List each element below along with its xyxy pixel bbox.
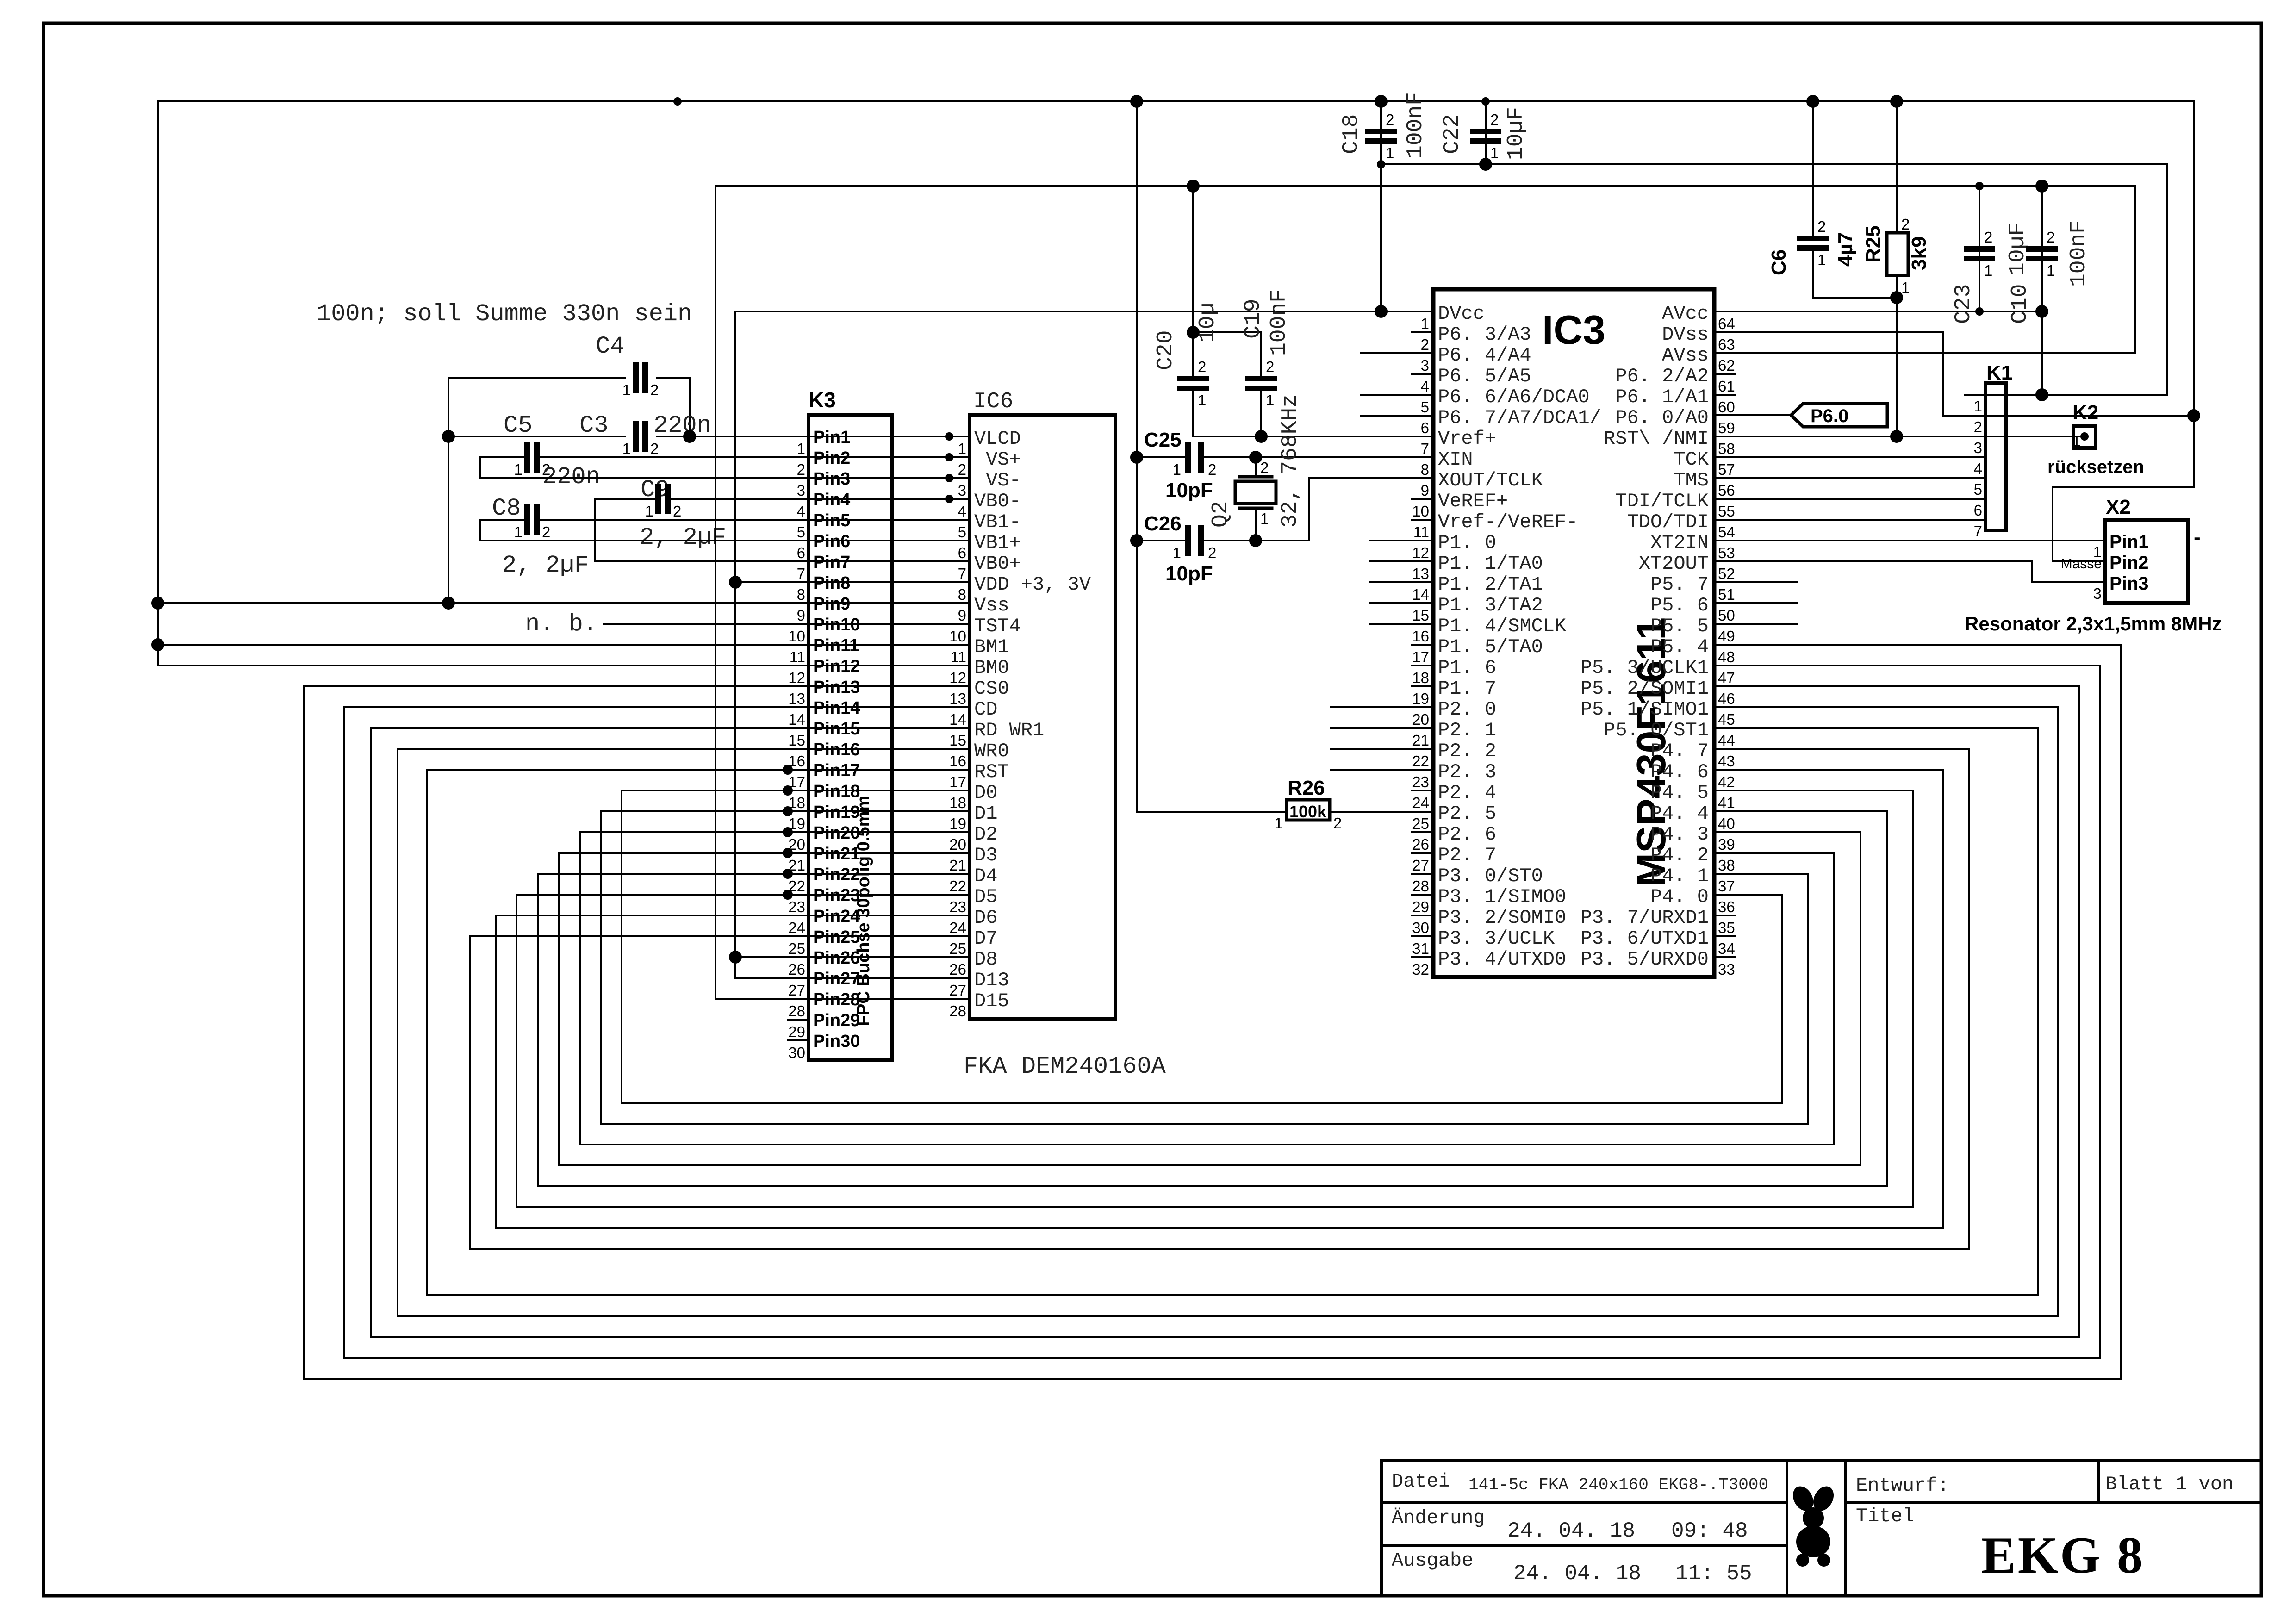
wire C22 vertical (1485, 101, 1487, 164)
svg-text:P4. 2: P4. 2 (1650, 844, 1709, 866)
svg-text:30: 30 (1412, 919, 1429, 936)
svg-text:2: 2 (650, 440, 659, 457)
svg-text:C5: C5 (504, 412, 532, 439)
svg-text:P6. 3/A3: P6. 3/A3 (1438, 324, 1531, 346)
junction C22 bottom (1479, 158, 1492, 171)
svg-text:Pin25: Pin25 (813, 927, 860, 947)
junction row26 tap (729, 951, 742, 964)
svg-text:P1. 0: P1. 0 (1438, 532, 1496, 554)
svg-text:DVcc: DVcc (1438, 303, 1485, 325)
svg-text:12: 12 (949, 669, 966, 686)
svg-text:IC6: IC6 (973, 389, 1013, 414)
svg-text:Pin1: Pin1 (813, 428, 850, 447)
svg-text:28: 28 (949, 1002, 966, 1020)
junction C18 DVcc joint (1375, 305, 1388, 318)
svg-text:P6. 6/A6/DCA0: P6. 6/A6/DCA0 (1438, 386, 1590, 408)
svg-text:12: 12 (1412, 544, 1429, 561)
svg-text:CD: CD (974, 698, 997, 721)
svg-text:36: 36 (1718, 898, 1735, 915)
wire IC3 pin17 lead (1412, 644, 1433, 646)
svg-text:13: 13 (788, 690, 805, 707)
svg-text:47: 47 (1718, 669, 1735, 686)
wire net TDI pin55 (1714, 498, 1965, 500)
capacitor C22 plates (1470, 129, 1501, 134)
wire net DVss pin63 (1714, 332, 2194, 416)
wire IC3 pin18 lead (1412, 665, 1433, 666)
svg-text:Vref-/VeREF-: Vref-/VeREF- (1438, 511, 1578, 533)
wire IC3 pin4 lead (1412, 373, 1433, 375)
svg-text:AVcc: AVcc (1662, 303, 1709, 325)
wire K1 pin5 stub (1965, 477, 1985, 479)
svg-text:D6: D6 (974, 907, 997, 929)
svg-text:D8: D8 (974, 948, 997, 971)
svg-text:100k: 100k (1289, 802, 1327, 821)
svg-text:C3: C3 (579, 412, 608, 439)
wire IC3 pin26 lead (1412, 831, 1433, 833)
svg-text:Pin13: Pin13 (813, 678, 860, 697)
svg-text:1: 1 (514, 523, 523, 541)
svg-text:P2. 7: P2. 7 (1438, 844, 1496, 866)
svg-text:21: 21 (788, 857, 805, 874)
svg-text:1: 1 (1260, 510, 1269, 527)
svg-text:VeREF+: VeREF+ (1438, 490, 1508, 512)
svg-text:C8: C8 (492, 495, 521, 522)
svg-text:7: 7 (1421, 440, 1429, 457)
wire title block left (1380, 1460, 1383, 1596)
svg-text:D7: D7 (974, 927, 997, 950)
wire IC3 pin11 lead (1412, 519, 1433, 521)
svg-text:100nF: 100nF (1403, 92, 1428, 159)
svg-text:Masse: Masse (2061, 556, 2102, 572)
svg-text:Q2: Q2 (1208, 501, 1233, 528)
svg-text:Pin6: Pin6 (813, 532, 850, 551)
svg-text:P6.0: P6.0 (1811, 406, 1848, 426)
svg-text:2: 2 (1984, 229, 1992, 246)
wire IC3 pin23 lead (1331, 769, 1433, 771)
svg-text:VB0+: VB0+ (974, 553, 1021, 575)
svg-text:Pin29: Pin29 (813, 1011, 860, 1030)
wire net TCK pin57 (1714, 456, 1965, 458)
svg-text:16: 16 (1412, 628, 1429, 645)
svg-text:n. b.: n. b. (525, 610, 597, 638)
resistor R25 body (1887, 233, 1908, 275)
wire net VLCD row1b (657, 436, 970, 437)
svg-text:30: 30 (788, 1044, 805, 1061)
svg-text:29: 29 (1412, 898, 1429, 915)
wire Q2 top lead (1255, 457, 1257, 477)
svg-text:1: 1 (958, 440, 966, 457)
svg-text:23: 23 (788, 898, 805, 915)
svg-text:P5. 1/SIMO1: P5. 1/SIMO1 (1580, 698, 1709, 721)
svg-text:21: 21 (1412, 732, 1429, 749)
junction BM1 rail left (151, 638, 164, 651)
svg-text:P2. 6: P2. 6 (1438, 823, 1496, 846)
wire C20 bottom (1192, 390, 1194, 436)
svg-text:29: 29 (788, 1023, 805, 1040)
svg-text:50: 50 (1718, 607, 1735, 624)
wire bus loop K3 pin21 to IC3 pin39 (559, 832, 1860, 1165)
wire IC3 pin61 stub (1714, 373, 1735, 375)
svg-text:41: 41 (1718, 794, 1735, 811)
svg-text:P5. 6: P5. 6 (1650, 594, 1709, 616)
junction K3 pin21 wire joint (783, 848, 793, 858)
wire C8 left U (480, 520, 524, 541)
IC U IC3 MSP430F1611 box (1433, 289, 1714, 977)
svg-text:P5. 0/ST1: P5. 0/ST1 (1604, 719, 1709, 741)
wire vertical DVcc to K3 (735, 311, 970, 978)
svg-text:P1. 6: P1. 6 (1438, 657, 1496, 679)
svg-text:D15: D15 (974, 990, 1009, 1012)
svg-text:10: 10 (788, 628, 805, 645)
junction AVss rail C20 tap (1187, 180, 1200, 193)
svg-text:Resonator 2,3x1,5mm 8MHz: Resonator 2,3x1,5mm 8MHz (1965, 613, 2222, 635)
svg-text:C23: C23 (1951, 284, 1976, 324)
wire net XOUT left (1137, 540, 1185, 541)
wire IC3 pin32 lead (1412, 956, 1433, 958)
wire bus loop K3 pin14 to IC3 pin47 (344, 666, 2100, 1358)
IC IC6 box (970, 415, 1115, 1019)
svg-text:P5. 5: P5. 5 (1650, 615, 1709, 637)
svg-text:RST\ /NMI: RST\ /NMI (1604, 428, 1709, 450)
svg-text:4µ7: 4µ7 (1834, 232, 1857, 267)
wire bus loop K3 pin18 to IC3 pin36 (622, 790, 1782, 1103)
svg-text:D3: D3 (974, 844, 997, 866)
svg-text:11: 55: 11: 55 (1675, 1562, 1752, 1586)
svg-text:C18: C18 (1339, 114, 1364, 154)
junction Vss rail left (151, 597, 164, 610)
junction VS- pin end (945, 474, 953, 482)
svg-text:Pin15: Pin15 (813, 719, 860, 739)
svg-text:6: 6 (1421, 419, 1429, 436)
wire net P5.5 pin49 (1714, 623, 1798, 625)
junction R25 rail tap (1890, 95, 1903, 108)
svg-text:24. 04. 18: 24. 04. 18 (1507, 1519, 1635, 1543)
junction C20/C19 top joint (1187, 326, 1200, 339)
svg-text:3k9: 3k9 (1908, 236, 1930, 270)
svg-text:P3. 5/URXD0: P3. 5/URXD0 (1580, 948, 1709, 971)
svg-text:D4: D4 (974, 865, 997, 887)
wire X2 pin1 stub (2084, 540, 2105, 541)
svg-text:Pin20: Pin20 (813, 823, 860, 843)
svg-text:10: 10 (949, 628, 966, 645)
junction K3 pin22 wire joint (783, 869, 793, 879)
svg-text:2: 2 (1260, 459, 1269, 476)
svg-text:K2: K2 (2072, 401, 2098, 424)
svg-text:13: 13 (1412, 565, 1429, 582)
svg-text:14: 14 (949, 711, 966, 728)
svg-text:32, 768KHz: 32, 768KHz (1278, 394, 1303, 528)
svg-text:1: 1 (1173, 461, 1181, 478)
svg-text:3: 3 (1421, 357, 1429, 374)
wire net VCC rail C18-C22 (1381, 164, 2167, 395)
svg-text:BM1: BM1 (974, 636, 1009, 658)
svg-text:5: 5 (797, 523, 805, 541)
junction XIN crystal tap (1249, 451, 1262, 464)
svg-text:P6. 2/A2: P6. 2/A2 (1615, 365, 1709, 387)
svg-text:P2. 2: P2. 2 (1438, 740, 1496, 762)
svg-text:21: 21 (949, 857, 966, 874)
wire bus loop K3 pin23 to IC3 pin41 (516, 790, 1913, 1207)
wire net AVcc pin64 (1714, 311, 2042, 312)
svg-text:P1. 7: P1. 7 (1438, 678, 1496, 700)
svg-text:26: 26 (949, 961, 966, 978)
svg-text:Datei: Datei (1392, 1470, 1450, 1493)
svg-text:11: 11 (1413, 523, 1429, 541)
svg-text:Änderung: Änderung (1392, 1507, 1485, 1529)
svg-text:Pin22: Pin22 (813, 865, 860, 884)
wire IC3 pin28 lead (1412, 873, 1433, 875)
svg-text:44: 44 (1718, 732, 1735, 749)
svg-text:X2: X2 (2106, 496, 2131, 518)
svg-text:1: 1 (622, 381, 631, 398)
svg-text:D5: D5 (974, 886, 997, 908)
svg-text:43: 43 (1718, 753, 1735, 770)
svg-text:9: 9 (958, 607, 966, 624)
svg-text:-: - (2194, 526, 2201, 548)
svg-text:Pin5: Pin5 (813, 511, 850, 530)
wire net VDD row8 (735, 581, 970, 583)
svg-text:1: 1 (1173, 544, 1181, 561)
svg-text:Pin7: Pin7 (813, 553, 850, 572)
svg-text:2: 2 (1198, 358, 1206, 375)
svg-text:49: 49 (1718, 628, 1735, 645)
svg-text:EKG 8: EKG 8 (1981, 1527, 2145, 1584)
junction XOUT crystal tap (1249, 534, 1262, 547)
junction XIN gnd tap (1130, 451, 1143, 464)
wire net XT2OUT pin52 (1714, 561, 2105, 582)
svg-text:7: 7 (958, 565, 966, 582)
wire C23 vertical (1979, 186, 1980, 311)
svg-text:25: 25 (788, 940, 805, 957)
svg-text:100n; soll Summe 330n sein: 100n; soll Summe 330n sein (317, 300, 692, 328)
wire net Vss row9 (158, 602, 970, 604)
junction C10 top (2035, 180, 2048, 193)
svg-text:D1: D1 (974, 803, 997, 825)
capacitor C8 plates (524, 504, 530, 535)
wire IC3 pin15 lead (1370, 602, 1433, 604)
svg-text:8: 8 (797, 586, 805, 603)
svg-text:54: 54 (1718, 523, 1735, 541)
wire IC3 pin5 lead (1361, 394, 1433, 396)
svg-text:24: 24 (788, 919, 805, 936)
svg-text:P1. 3/TA2: P1. 3/TA2 (1438, 594, 1543, 616)
svg-text:4: 4 (1974, 460, 1982, 477)
junction VB0- pin end (945, 495, 953, 503)
svg-text:Blatt 1 von: Blatt 1 von (2105, 1473, 2234, 1495)
svg-text:VB1-: VB1- (974, 511, 1021, 533)
svg-text:45: 45 (1718, 711, 1735, 728)
svg-text:P2. 4: P2. 4 (1438, 782, 1496, 804)
junction C18 top (1375, 95, 1388, 108)
svg-text:R26: R26 (1288, 777, 1325, 799)
svg-text:2, 2µF: 2, 2µF (640, 524, 726, 551)
wire IC3 pin29 lead (1412, 894, 1433, 896)
wire K3 pin30 stub (788, 1039, 809, 1041)
svg-text:14: 14 (788, 711, 805, 728)
svg-text:P5. 3/UCLK1: P5. 3/UCLK1 (1580, 657, 1709, 679)
wire net P5.6 pin50 (1714, 602, 1798, 604)
svg-text:1: 1 (1817, 251, 1826, 268)
wire bus loop K3 pin24 to IC3 pin42 (496, 770, 1943, 1228)
junction K3 pin17 wire joint (783, 765, 793, 775)
svg-text:1: 1 (1974, 398, 1982, 415)
capacitor C23 plates (1964, 246, 1995, 252)
svg-text:P5. 7: P5. 7 (1650, 573, 1709, 596)
svg-text:13: 13 (949, 690, 966, 707)
svg-text:18: 18 (788, 794, 805, 811)
svg-text:Pin30: Pin30 (813, 1032, 860, 1051)
svg-text:AVss: AVss (1662, 344, 1709, 367)
svg-text:C19: C19 (1241, 299, 1266, 339)
svg-text:Pin28: Pin28 (813, 990, 860, 1009)
svg-text:64: 64 (1718, 315, 1735, 332)
wire Q2 bottom electrode (1240, 507, 1272, 510)
wire IC3 pin2 lead (1412, 331, 1433, 333)
wire IC3 pin35 stub (1714, 915, 1735, 916)
wire K1 pin3 stub (1965, 436, 1985, 437)
wire title block v3 (2097, 1460, 2100, 1503)
svg-text:11: 11 (951, 648, 966, 666)
svg-text:19: 19 (1412, 690, 1429, 707)
junction C10 bottom (2035, 305, 2048, 318)
svg-text:Pin14: Pin14 (813, 698, 860, 718)
wire IC3 pin22 lead (1331, 748, 1433, 750)
svg-text:6: 6 (958, 544, 966, 561)
wire K1 pin7 stub (1965, 519, 1985, 521)
svg-text:39: 39 (1718, 836, 1735, 853)
svg-text:Pin8: Pin8 (813, 573, 850, 593)
svg-text:37: 37 (1718, 877, 1735, 895)
svg-text:7: 7 (1974, 523, 1982, 540)
svg-text:P6. 0/A0: P6. 0/A0 (1615, 407, 1709, 429)
svg-text:Pin3: Pin3 (813, 469, 850, 489)
capacitor C10 plates (2026, 246, 2058, 252)
svg-text:C6: C6 (1767, 249, 1790, 275)
svg-text:42: 42 (1718, 773, 1735, 790)
wire title block top (1381, 1459, 2261, 1462)
wire C4 right wire (657, 378, 690, 436)
svg-text:2: 2 (1490, 111, 1499, 128)
connector K1 box (1985, 383, 2006, 530)
Q2 body (1235, 481, 1276, 504)
svg-text:38: 38 (1718, 857, 1735, 874)
svg-text:27: 27 (949, 982, 966, 999)
wire bus loop K3 pin22 to IC3 pin40 (538, 811, 1887, 1186)
wire title block h1 (1381, 1501, 1787, 1504)
wire vertical AVss to K3 row28 (716, 186, 970, 999)
svg-text:17: 17 (1412, 648, 1429, 666)
svg-text:1: 1 (514, 461, 523, 478)
svg-text:Pin12: Pin12 (813, 657, 860, 676)
svg-text:P2. 5: P2. 5 (1438, 803, 1496, 825)
svg-text:20: 20 (949, 836, 966, 853)
svg-text:17: 17 (949, 773, 966, 790)
svg-text:P4. 7: P4. 7 (1650, 740, 1709, 762)
svg-text:P1. 1/TA0: P1. 1/TA0 (1438, 553, 1543, 575)
wire C19 top branch (1193, 332, 1261, 376)
wire net XT2IN pin53 (1714, 540, 2105, 541)
svg-text:DVss: DVss (1662, 324, 1709, 346)
svg-text:100nF: 100nF (2066, 220, 2091, 287)
wire bus loop K3 pin13 to IC3 pin48 (304, 645, 2121, 1379)
svg-text:P5. 2/SOMI1: P5. 2/SOMI1 (1580, 678, 1709, 700)
svg-text:25: 25 (1412, 815, 1429, 832)
svg-text:VDD +3, 3V: VDD +3, 3V (974, 573, 1091, 596)
svg-text:220n: 220n (542, 463, 600, 491)
junction K3 pin20 wire joint (783, 827, 793, 837)
svg-text:12: 12 (788, 669, 805, 686)
wire net P2.5 with R26 (1137, 811, 1287, 813)
svg-text:P2. 0: P2. 0 (1438, 698, 1496, 721)
svg-text:6: 6 (797, 544, 805, 561)
wire IC3 pin24 lead (1412, 790, 1433, 791)
svg-text:Vss: Vss (974, 594, 1009, 616)
wire C9 left wire (595, 499, 655, 561)
wire net BM1 row11 (158, 644, 970, 646)
svg-text:14: 14 (1412, 586, 1429, 603)
svg-text:VS-: VS- (974, 469, 1021, 492)
svg-text:P4. 1: P4. 1 (1650, 865, 1709, 887)
svg-text:1: 1 (1984, 262, 1992, 279)
wire IC3 pin10 lead (1412, 498, 1433, 500)
wire net VB1- row5 (540, 519, 970, 521)
wire title block v1 (1786, 1460, 1788, 1596)
wire IC3 pin16 lead (1370, 623, 1433, 625)
wire bus loop K3 pin15 to IC3 pin46 (371, 686, 2079, 1337)
svg-text:20: 20 (1412, 711, 1429, 728)
wire IC3 pin20 lead (1331, 706, 1433, 708)
svg-text:D13: D13 (974, 969, 1009, 991)
wire net VLCD row1 (448, 436, 625, 437)
svg-text:2: 2 (542, 523, 550, 541)
svg-text:VLCD: VLCD (974, 428, 1021, 450)
wire net XIN left (1137, 456, 1185, 458)
svg-text:16: 16 (788, 753, 805, 770)
svg-text:20: 20 (788, 836, 805, 853)
wire net TDO pin54 (1714, 519, 1965, 521)
wire IC3 pin33 stub (1714, 956, 1735, 958)
wire GND drop to crystal caps (1136, 101, 1138, 812)
svg-text:2: 2 (1208, 544, 1216, 561)
wire bus loop K3 pin19 to IC3 pin37 (601, 811, 1808, 1124)
svg-text:D2: D2 (974, 823, 997, 846)
capacitor C20 plates (1177, 376, 1209, 381)
svg-text:FKA DEM240160A: FKA DEM240160A (964, 1053, 1166, 1080)
svg-text:XT2IN: XT2IN (1650, 532, 1709, 554)
svg-text:K3: K3 (809, 388, 836, 412)
svg-text:2, 2µF: 2, 2µF (502, 552, 589, 579)
junction K3 pin19 wire joint (783, 806, 793, 816)
svg-text:5: 5 (1421, 398, 1429, 416)
svg-text:27: 27 (1412, 857, 1429, 874)
svg-text:16: 16 (949, 753, 966, 770)
svg-text:Pin23: Pin23 (813, 886, 860, 905)
wire title block v2 (1844, 1460, 1847, 1596)
svg-text:1: 1 (645, 503, 653, 520)
svg-text:2: 2 (1974, 418, 1982, 436)
svg-text:P1. 4/SMCLK: P1. 4/SMCLK (1438, 615, 1567, 637)
capacitor C5 plates (524, 442, 530, 473)
svg-text:11: 11 (790, 648, 805, 666)
svg-text:Pin1: Pin1 (2109, 532, 2148, 552)
svg-text:15: 15 (788, 732, 805, 749)
capacitor C26 plates (1185, 525, 1191, 556)
junction GND rail tap (1130, 95, 1143, 108)
svg-text:4: 4 (1421, 378, 1429, 395)
junction C4 drop (683, 430, 696, 443)
capacitor C25 plates (1185, 442, 1191, 473)
svg-text:5: 5 (1974, 481, 1982, 498)
